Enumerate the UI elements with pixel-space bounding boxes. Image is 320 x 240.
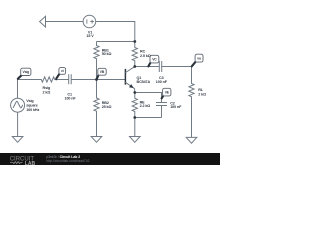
svg-text:Vsig: Vsig	[23, 70, 30, 74]
svg-text:100 kHz: 100 kHz	[26, 108, 39, 112]
svg-text:RL: RL	[198, 88, 204, 92]
svg-text:100 nF: 100 nF	[170, 105, 182, 109]
svg-text:2.5 kΩ: 2.5 kΩ	[140, 54, 151, 58]
svg-text:Rsig: Rsig	[43, 86, 51, 90]
svg-text:VC: VC	[152, 57, 157, 61]
svg-text:vi: vi	[61, 69, 64, 73]
svg-text:RC: RC	[140, 49, 146, 53]
svg-text:http://circuitlab.com/caad742: http://circuitlab.com/caad742	[46, 159, 89, 163]
svg-text:15 V: 15 V	[86, 34, 94, 38]
svg-text:100 nF: 100 nF	[156, 80, 168, 84]
svg-text:2 kΩ: 2 kΩ	[43, 91, 51, 95]
svg-text:50 kΩ: 50 kΩ	[102, 52, 112, 56]
svg-text:2 kΩ: 2 kΩ	[198, 93, 206, 97]
svg-text:100 nF: 100 nF	[65, 96, 77, 100]
svg-text:VB: VB	[100, 70, 105, 74]
svg-text:BC547A: BC547A	[137, 80, 151, 84]
svg-text:2.2 kΩ: 2.2 kΩ	[140, 104, 151, 108]
svg-text:LAB: LAB	[25, 161, 36, 165]
svg-text:25 kΩ: 25 kΩ	[102, 105, 112, 109]
svg-text:vo: vo	[197, 56, 201, 60]
svg-text:Vsig: Vsig	[26, 99, 33, 103]
